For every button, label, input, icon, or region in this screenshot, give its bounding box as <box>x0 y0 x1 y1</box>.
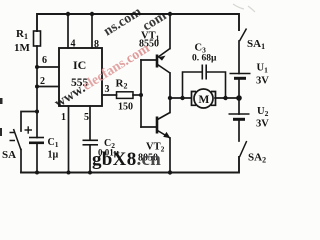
svg-text:2: 2 <box>40 76 45 87</box>
wire pin4 drop <box>67 14 69 48</box>
switch SA2 <box>240 141 247 157</box>
motor left brush bracket <box>192 92 197 106</box>
wire bottom rail <box>21 157 239 173</box>
C1 plus sign <box>25 129 33 131</box>
wire battery column SA1 to U1 <box>238 41 240 74</box>
svg-text:1: 1 <box>61 112 66 123</box>
svg-text:3V: 3V <box>256 76 269 87</box>
node pin6 junction <box>35 65 39 69</box>
battery U1 <box>230 74 251 79</box>
node rail pin1 <box>67 171 71 175</box>
motor right brush bracket <box>211 92 216 106</box>
node battery mid junction <box>236 95 242 101</box>
svg-text:0.01µ: 0.01µ <box>98 148 120 158</box>
node rail C2 <box>88 171 92 175</box>
wire C1/SA branch <box>21 112 37 132</box>
svg-text:3: 3 <box>105 84 110 95</box>
svg-text:4: 4 <box>71 39 76 50</box>
wire pin6 <box>37 66 59 68</box>
svg-text:8: 8 <box>94 39 99 50</box>
wire pin8 drop <box>91 14 93 48</box>
motor M <box>192 89 216 108</box>
VT1 emitter arrow (PNP, points into base) <box>158 56 165 61</box>
watermark www.elecfans.com diagonal <box>52 4 169 111</box>
wire R2 to base node <box>133 94 141 96</box>
left edge scan artifacts <box>0 98 3 136</box>
svg-text:SA: SA <box>2 149 16 161</box>
wire motor line left <box>170 97 191 99</box>
svg-text:1µ: 1µ <box>48 150 59 161</box>
wire pin2 <box>37 86 59 88</box>
node top rail VT1 <box>168 12 172 16</box>
node rail VT2 <box>168 170 172 174</box>
node base feed junction <box>139 93 143 97</box>
switch SA1 <box>240 29 247 42</box>
svg-text:150: 150 <box>118 102 133 113</box>
paper background <box>0 0 277 190</box>
wire VT1 base link <box>141 59 156 61</box>
wire VT2 collector to motor node <box>169 98 171 113</box>
wire base column <box>140 60 142 127</box>
capacitor C3 <box>183 65 226 99</box>
IC U1 555 box <box>59 48 102 106</box>
capacitor C1 <box>25 126 45 143</box>
svg-text:0. 68µ: 0. 68µ <box>192 54 217 64</box>
resistor R1 <box>34 31 41 46</box>
svg-text:6: 6 <box>42 55 47 66</box>
wire R1 bottom to pin6/pin2 column <box>36 46 38 138</box>
node top rail pin4 <box>66 12 70 16</box>
svg-text:M: M <box>199 94 210 106</box>
resistor R2 <box>117 92 134 99</box>
node C3 left junction <box>180 96 184 100</box>
node rail C1 <box>35 171 39 175</box>
node C3 right junction <box>223 96 227 100</box>
switch SA <box>10 129 22 150</box>
node C1 branch junction <box>35 110 39 114</box>
node pin2 junction <box>35 85 39 89</box>
battery U2 <box>229 114 250 119</box>
svg-text:5: 5 <box>84 112 89 123</box>
wire C2 to rail <box>89 145 91 173</box>
wire pin3 to R2 <box>102 94 117 96</box>
wire top rail <box>37 14 239 31</box>
wire U2 to SA2 <box>238 121 240 141</box>
wire U1 to motor node <box>238 79 240 114</box>
svg-text:3V: 3V <box>256 119 269 130</box>
wire VT2 emitter to rail <box>169 138 171 173</box>
wire VT1 emitter rail drop <box>169 14 171 49</box>
wire VT1 collector to motor node <box>169 73 171 98</box>
node top rail pin8 <box>90 12 94 16</box>
transistor VT2 <box>157 113 171 139</box>
wire SA to bottom rail <box>20 150 22 173</box>
transistor VT1 <box>157 49 170 74</box>
wire pin5 to C2 <box>89 106 91 140</box>
VT2 emitter arrow (NPN, points out) <box>163 132 170 138</box>
wire VT2 base link <box>141 126 156 128</box>
capacitor C2 <box>83 140 99 145</box>
node motor left junction <box>168 96 172 100</box>
wire C1 bottom to rail <box>36 143 38 173</box>
wire motor line right <box>215 97 239 99</box>
faint pencil marks top right <box>233 4 255 12</box>
svg-text:IC: IC <box>73 58 86 72</box>
wire pin1 to rail <box>68 106 70 173</box>
svg-text:1M: 1M <box>14 42 31 54</box>
